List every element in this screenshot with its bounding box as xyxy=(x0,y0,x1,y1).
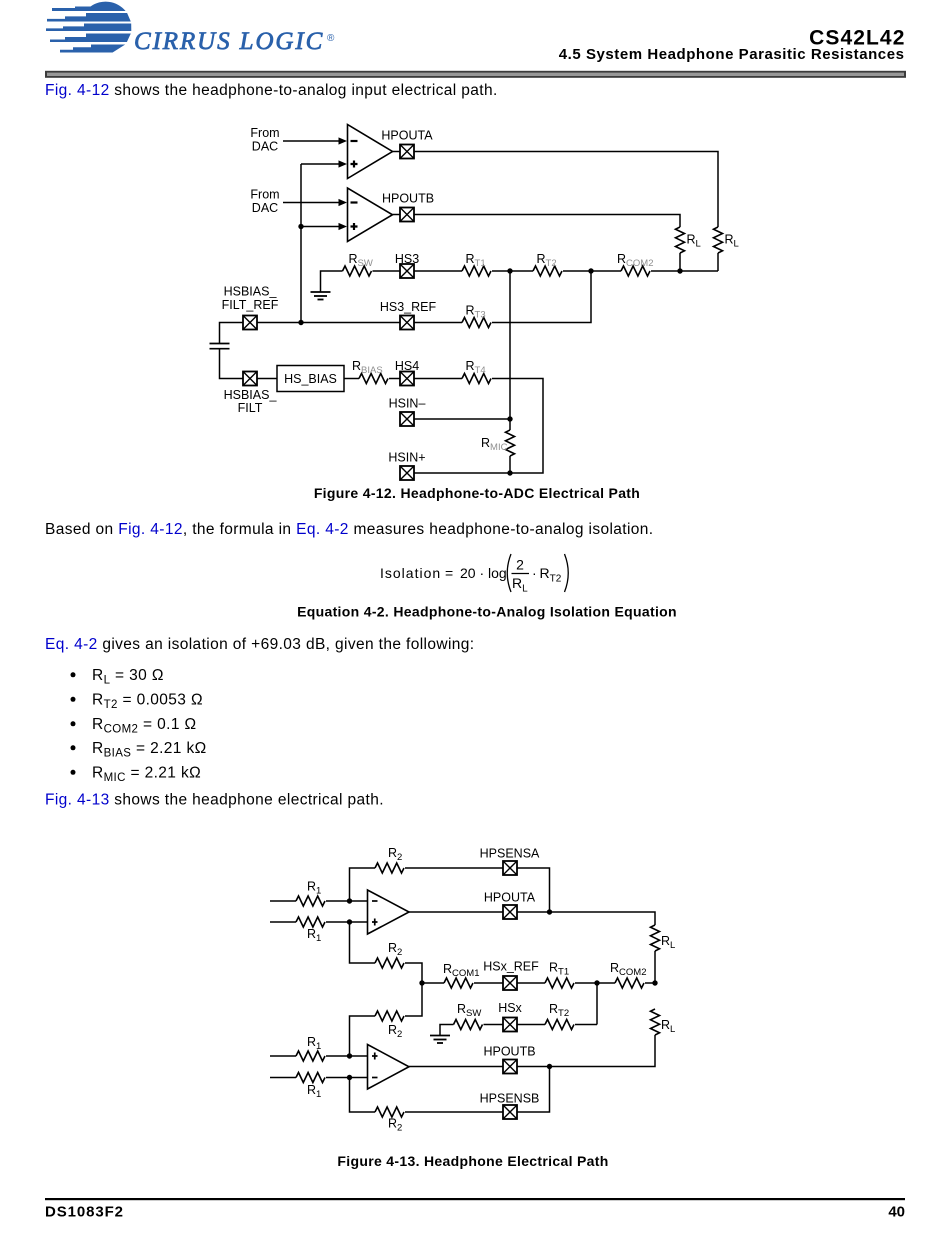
block HS_BIAS xyxy=(277,366,344,392)
wire RCOM1 to HSx_REF xyxy=(474,982,503,984)
label From DAC (U2) xyxy=(250,188,279,216)
pass-gate HPOUTA xyxy=(400,145,414,159)
bullet RCOM2 value xyxy=(71,716,197,736)
wire RT1 to RCOM2 (fig13) xyxy=(575,982,615,984)
arrow U1 inverting input xyxy=(339,137,348,144)
wire node to U2 plus input (vertical) xyxy=(300,164,302,323)
pass-gate HSx_REF xyxy=(503,976,517,990)
resistor RT2 xyxy=(533,266,562,276)
svg-text:RL = 30 Ω: RL = 30 Ω xyxy=(92,667,164,687)
svg-text:R2: R2 xyxy=(388,1023,402,1040)
resistor RMIC xyxy=(506,430,515,456)
wire R1 input B2 xyxy=(270,1077,296,1079)
wire HSx to RT2 (fig13) xyxy=(517,1024,545,1026)
node B2 xyxy=(347,1075,352,1080)
wire HPSENSB to output node xyxy=(517,1067,550,1113)
svg-text:RT2 = 0.0053 Ω: RT2 = 0.0053 Ω xyxy=(92,692,203,712)
wire R1 A2 to op-amp xyxy=(326,921,368,923)
svg-text:R1: R1 xyxy=(307,1035,321,1052)
svg-text:Isolation: Isolation xyxy=(380,565,441,581)
svg-text:DS1083F2: DS1083F2 xyxy=(45,1204,124,1221)
wire HSBIAS_FILT to HS_BIAS block xyxy=(257,378,277,380)
label HSBIAS_FILT_REF xyxy=(222,285,279,313)
svg-text:·: · xyxy=(532,565,537,581)
wire RT2 to RCOM2 xyxy=(563,270,621,272)
svg-text:HSx: HSx xyxy=(498,1001,522,1015)
svg-text:RL: RL xyxy=(661,1018,675,1035)
ground (RSW) xyxy=(311,292,331,300)
wire R1 input B1 xyxy=(270,1055,296,1057)
svg-text:=: = xyxy=(445,565,453,581)
svg-text:RSW: RSW xyxy=(349,252,373,269)
arrow U1 non-inverting input xyxy=(339,160,348,167)
wire U4 output xyxy=(409,1066,503,1068)
svg-text:HSIN+: HSIN+ xyxy=(388,451,425,465)
wire R2 to HPSENSA xyxy=(405,867,503,869)
svg-text:HSBIAS_: HSBIAS_ xyxy=(224,285,278,299)
pass-gate HSBIAS_FILT xyxy=(243,372,257,386)
pass-gate HS3_REF xyxy=(400,316,414,330)
wire R2 feedback A (vertical) xyxy=(350,868,376,901)
pass-gate HPSENSA xyxy=(503,861,517,875)
resistor R1 (B2) xyxy=(296,1073,325,1083)
label HSBIAS_FILT xyxy=(224,388,278,415)
svg-text:Based on Fig. 4-12, the formul: Based on Fig. 4-12, the formula in Eq. 4… xyxy=(45,521,654,538)
resistor R2 (feedback A) xyxy=(375,863,404,873)
pass-gate HSIN+ xyxy=(400,466,414,480)
op-amp U3 (HPOUTA) xyxy=(368,890,410,934)
wire HSx_REF to RT1 xyxy=(517,982,545,984)
wire RL right bottom xyxy=(717,253,719,271)
svg-text:RL: RL xyxy=(661,934,675,951)
bullet RT2 value xyxy=(71,692,203,712)
resistor RT1 xyxy=(462,266,491,276)
wire RCOM2 to RL bottoms xyxy=(651,270,718,272)
svg-text:2: 2 xyxy=(516,557,524,573)
wire RSW to ground (fig13) xyxy=(440,1025,454,1036)
pass-gate HSx xyxy=(503,1018,517,1032)
svg-text:RT2: RT2 xyxy=(549,1002,569,1019)
wire HS3_REF to RT3 xyxy=(414,322,462,324)
svg-text:®: ® xyxy=(327,33,335,44)
wire HSIN- to RMIC node xyxy=(414,418,510,420)
svg-text:Fig. 4-12 shows the headphone-: Fig. 4-12 shows the headphone-to-analog … xyxy=(45,82,498,99)
footer rule xyxy=(45,1198,905,1200)
Cirrus Logic logo ball xyxy=(46,2,131,53)
svg-text:FILT_REF: FILT_REF xyxy=(222,298,279,312)
svg-text:RT1: RT1 xyxy=(466,252,486,269)
bullet RMIC value xyxy=(71,765,202,785)
wire R2 B (vertical from A2 node) xyxy=(350,922,376,963)
pass-gate HPOUTA (fig13) xyxy=(503,905,517,919)
svg-text:Figure 4-12. Headphone-to-ADC: Figure 4-12. Headphone-to-ADC Electrical… xyxy=(314,485,640,501)
wire RMIC top lead xyxy=(509,419,511,430)
wire vertical T1 node down to HSIN- xyxy=(509,271,511,419)
wire R1 input A2 xyxy=(270,921,296,923)
svg-text:From: From xyxy=(250,188,279,202)
svg-text:Figure 4-13. Headphone Electri: Figure 4-13. Headphone Electrical Path xyxy=(337,1153,608,1169)
pass-gate HPSENSB xyxy=(503,1105,517,1119)
wire U2 inverting input xyxy=(283,202,340,204)
svg-text:RCOM2 = 0.1 Ω: RCOM2 = 0.1 Ω xyxy=(92,716,196,736)
svg-text:RT3: RT3 xyxy=(466,304,486,321)
resistor RCOM2 xyxy=(621,266,650,276)
svg-text:HPOUTB: HPOUTB xyxy=(382,192,434,206)
pass-gate HS4 xyxy=(400,372,414,386)
wire HS3 to RT1 xyxy=(414,270,462,272)
wire HSBIAS_FILT_REF to capacitor xyxy=(220,323,244,344)
resistor RSW (fig13) xyxy=(454,1020,483,1030)
svg-text:RL: RL xyxy=(512,575,528,595)
node B1 xyxy=(347,1053,352,1058)
resistor RT3 xyxy=(462,318,491,328)
svg-text:FILT: FILT xyxy=(238,401,263,415)
svg-text:From: From xyxy=(250,126,279,140)
svg-text:HPSENSB: HPSENSB xyxy=(480,1092,540,1106)
node HPSENSA junction xyxy=(547,909,552,914)
resistor R1 (A1) xyxy=(296,896,325,906)
ground (fig13) xyxy=(430,1036,450,1044)
resistor RCOM1 xyxy=(444,978,473,988)
resistor RL (right) xyxy=(714,227,723,253)
capacitor C1 xyxy=(210,344,230,349)
svg-text:RT2: RT2 xyxy=(537,252,557,269)
wire R2 C (from mid node down) xyxy=(405,983,422,1016)
svg-text:Fig. 4-13 shows the headphone: Fig. 4-13 shows the headphone electrical… xyxy=(45,792,384,809)
svg-text:HPSENSA: HPSENSA xyxy=(480,846,540,860)
wire R1 A1 to op-amp xyxy=(326,900,368,902)
wire RSW to HSx xyxy=(484,1024,504,1026)
node mid junction xyxy=(419,980,424,985)
svg-text:DAC: DAC xyxy=(252,201,278,215)
node RT1/RCOM2 junction xyxy=(594,980,599,985)
op-amp U1 (HPOUTA driver) xyxy=(348,125,393,179)
resistor R2 (B) xyxy=(375,958,404,968)
svg-text:Equation 4-2. Headphone-to-Ana: Equation 4-2. Headphone-to-Analog Isolat… xyxy=(297,604,677,620)
wire RT4 loop to HSIN+ row xyxy=(492,379,543,474)
svg-text:DAC: DAC xyxy=(252,140,278,154)
arrow U2 non-inverting input xyxy=(339,223,348,230)
svg-text:R1: R1 xyxy=(307,1083,321,1100)
svg-text:HS3: HS3 xyxy=(395,252,419,266)
wire HPOUTA to RL (net A) xyxy=(414,152,718,228)
wire HPOUTB to RL (net B) xyxy=(414,215,680,228)
node U2 plus junction xyxy=(298,224,303,229)
wire RT2 node vertical xyxy=(596,983,598,1025)
wire HPOUTB to RL bottom xyxy=(517,1035,655,1067)
svg-text:RMIC = 2.21 kΩ: RMIC = 2.21 kΩ xyxy=(92,765,201,785)
pass-gate HPOUTB (fig13) xyxy=(503,1060,517,1074)
svg-text:RMIC: RMIC xyxy=(481,436,508,453)
node T1/T2 junction xyxy=(507,268,512,273)
wire RL left bottom xyxy=(679,253,681,271)
wire R2 C to plus node xyxy=(350,1016,376,1056)
wire U2 output xyxy=(393,214,401,216)
wire RSW to ground xyxy=(321,271,343,292)
node HSIN+ junction xyxy=(507,470,512,475)
wire RL top bottom lead xyxy=(654,951,656,983)
resistor R1 (A2) xyxy=(296,917,325,927)
wire RCOM2 to RL column xyxy=(645,982,655,984)
resistor RL bottom (fig13) xyxy=(651,1009,660,1035)
resistor R2 (C) xyxy=(375,1011,404,1021)
node HSIN- junction xyxy=(507,416,512,421)
svg-text:HS3_REF: HS3_REF xyxy=(380,300,437,314)
svg-text:R1: R1 xyxy=(307,927,321,944)
wire HSIN+ to node xyxy=(414,472,510,474)
op-amp U4 (HPOUTB) xyxy=(368,1045,410,1090)
wire R1 B2 to op-amp xyxy=(326,1077,368,1079)
svg-text:RT1: RT1 xyxy=(549,961,569,978)
wire HPOUTA to RL top xyxy=(517,912,655,925)
pass-gate HPOUTB xyxy=(400,208,414,222)
svg-text:CIRRUS LOGIC: CIRRUS LOGIC xyxy=(134,28,324,55)
svg-text:RCOM1: RCOM1 xyxy=(443,962,479,979)
svg-text:Eq. 4-2 gives an isolation of: Eq. 4-2 gives an isolation of +69.03 dB,… xyxy=(45,636,474,653)
wire R1 B1 to op-amp xyxy=(326,1055,368,1057)
wire R2 D to HPSENSB xyxy=(405,1111,503,1113)
svg-text:RBIAS = 2.21 kΩ: RBIAS = 2.21 kΩ xyxy=(92,740,207,760)
op-amp U2 (HPOUTB driver) xyxy=(348,188,393,242)
svg-text:R2: R2 xyxy=(388,1117,402,1134)
svg-text:R1: R1 xyxy=(307,880,321,897)
node T2/COM2 junction xyxy=(588,268,593,273)
resistor RL top (fig13) xyxy=(651,925,660,951)
svg-text:HPOUTA: HPOUTA xyxy=(381,129,433,143)
label From DAC (U1) xyxy=(250,126,279,154)
wire R2 D (vertical from B2 node) xyxy=(350,1078,376,1113)
svg-text:HPOUTA: HPOUTA xyxy=(484,890,536,904)
wire capacitor to HSBIAS_FILT row xyxy=(220,349,244,379)
arrow U2 inverting input xyxy=(339,199,348,206)
resistor R2 (D) xyxy=(375,1107,404,1117)
wire U2 non-inverting input xyxy=(301,226,340,228)
svg-text:RT4: RT4 xyxy=(466,359,486,376)
svg-text:R2: R2 xyxy=(388,846,402,863)
svg-text:R2: R2 xyxy=(388,941,402,958)
node RL left bottom xyxy=(677,268,682,273)
bullet RL value xyxy=(71,667,164,687)
svg-text:40: 40 xyxy=(888,1204,905,1221)
resistor R1 (B1) xyxy=(296,1051,325,1061)
wire HSBIAS_FILT_REF to HS3_REF xyxy=(257,322,400,324)
wire RMIC bottom lead xyxy=(509,456,511,473)
svg-text:RCOM2: RCOM2 xyxy=(610,961,646,978)
wire RBIAS to HS4 xyxy=(389,378,400,380)
svg-text:RSW: RSW xyxy=(457,1002,481,1019)
svg-text:4.5 System Headphone Parasitic: 4.5 System Headphone Parasitic Resistanc… xyxy=(559,46,905,63)
bullet RBIAS value xyxy=(71,740,207,760)
svg-text:RBIAS: RBIAS xyxy=(352,359,383,376)
resistor RSW xyxy=(343,266,372,276)
svg-text:HS_BIAS: HS_BIAS xyxy=(284,372,337,386)
wire U1 output xyxy=(393,151,401,153)
header rule bar xyxy=(45,71,906,78)
wire U1 inverting input xyxy=(283,140,340,142)
wire RT2 up to junction xyxy=(575,1024,597,1026)
resistor RBIAS xyxy=(359,374,388,384)
resistor RCOM2 (fig13) xyxy=(615,978,644,988)
node A1 xyxy=(347,898,352,903)
svg-text:RL: RL xyxy=(725,233,739,250)
svg-text:HSBIAS_: HSBIAS_ xyxy=(224,388,278,402)
svg-text:HPOUTB: HPOUTB xyxy=(483,1045,535,1059)
pass-gate HSIN- xyxy=(400,412,414,426)
svg-text:HSIN–: HSIN– xyxy=(389,397,426,411)
pass-gate HS3 xyxy=(400,264,414,278)
wire HS_BIAS to RBIAS xyxy=(344,378,359,380)
wire mid node to RCOM1 xyxy=(422,982,444,984)
svg-text:HS4: HS4 xyxy=(395,359,419,373)
wire HPSENSA to output node xyxy=(517,868,550,912)
wire RT1 to RT2 xyxy=(492,270,533,272)
wire U3 output xyxy=(409,911,503,913)
resistor RL (left) xyxy=(676,227,685,253)
wire U1 non-inverting input xyxy=(301,163,340,165)
pass-gate HSBIAS_FILT_REF xyxy=(243,316,257,330)
node RL mid junction xyxy=(652,980,657,985)
equation 4-2 xyxy=(380,554,568,595)
wire R1 input A1 xyxy=(270,900,296,902)
resistor RT1 (fig13) xyxy=(545,978,574,988)
svg-text:RL: RL xyxy=(687,233,701,250)
node HPSENSB junction xyxy=(547,1064,552,1069)
svg-text:RT2: RT2 xyxy=(540,565,562,585)
svg-text:20 · log: 20 · log xyxy=(460,565,507,581)
wire vertical T2 node down to RT3 row xyxy=(492,271,591,323)
wire RSW to HS3 xyxy=(373,270,401,272)
wire HS4 to RT4 xyxy=(414,378,462,380)
svg-text:HSx_REF: HSx_REF xyxy=(483,960,539,974)
resistor RT4 xyxy=(462,374,491,384)
wire R2 B to mid node xyxy=(405,963,422,983)
node A2 xyxy=(347,919,352,924)
node plus-net junction on yS xyxy=(298,320,303,325)
resistor RT2 (fig13) xyxy=(545,1020,574,1030)
